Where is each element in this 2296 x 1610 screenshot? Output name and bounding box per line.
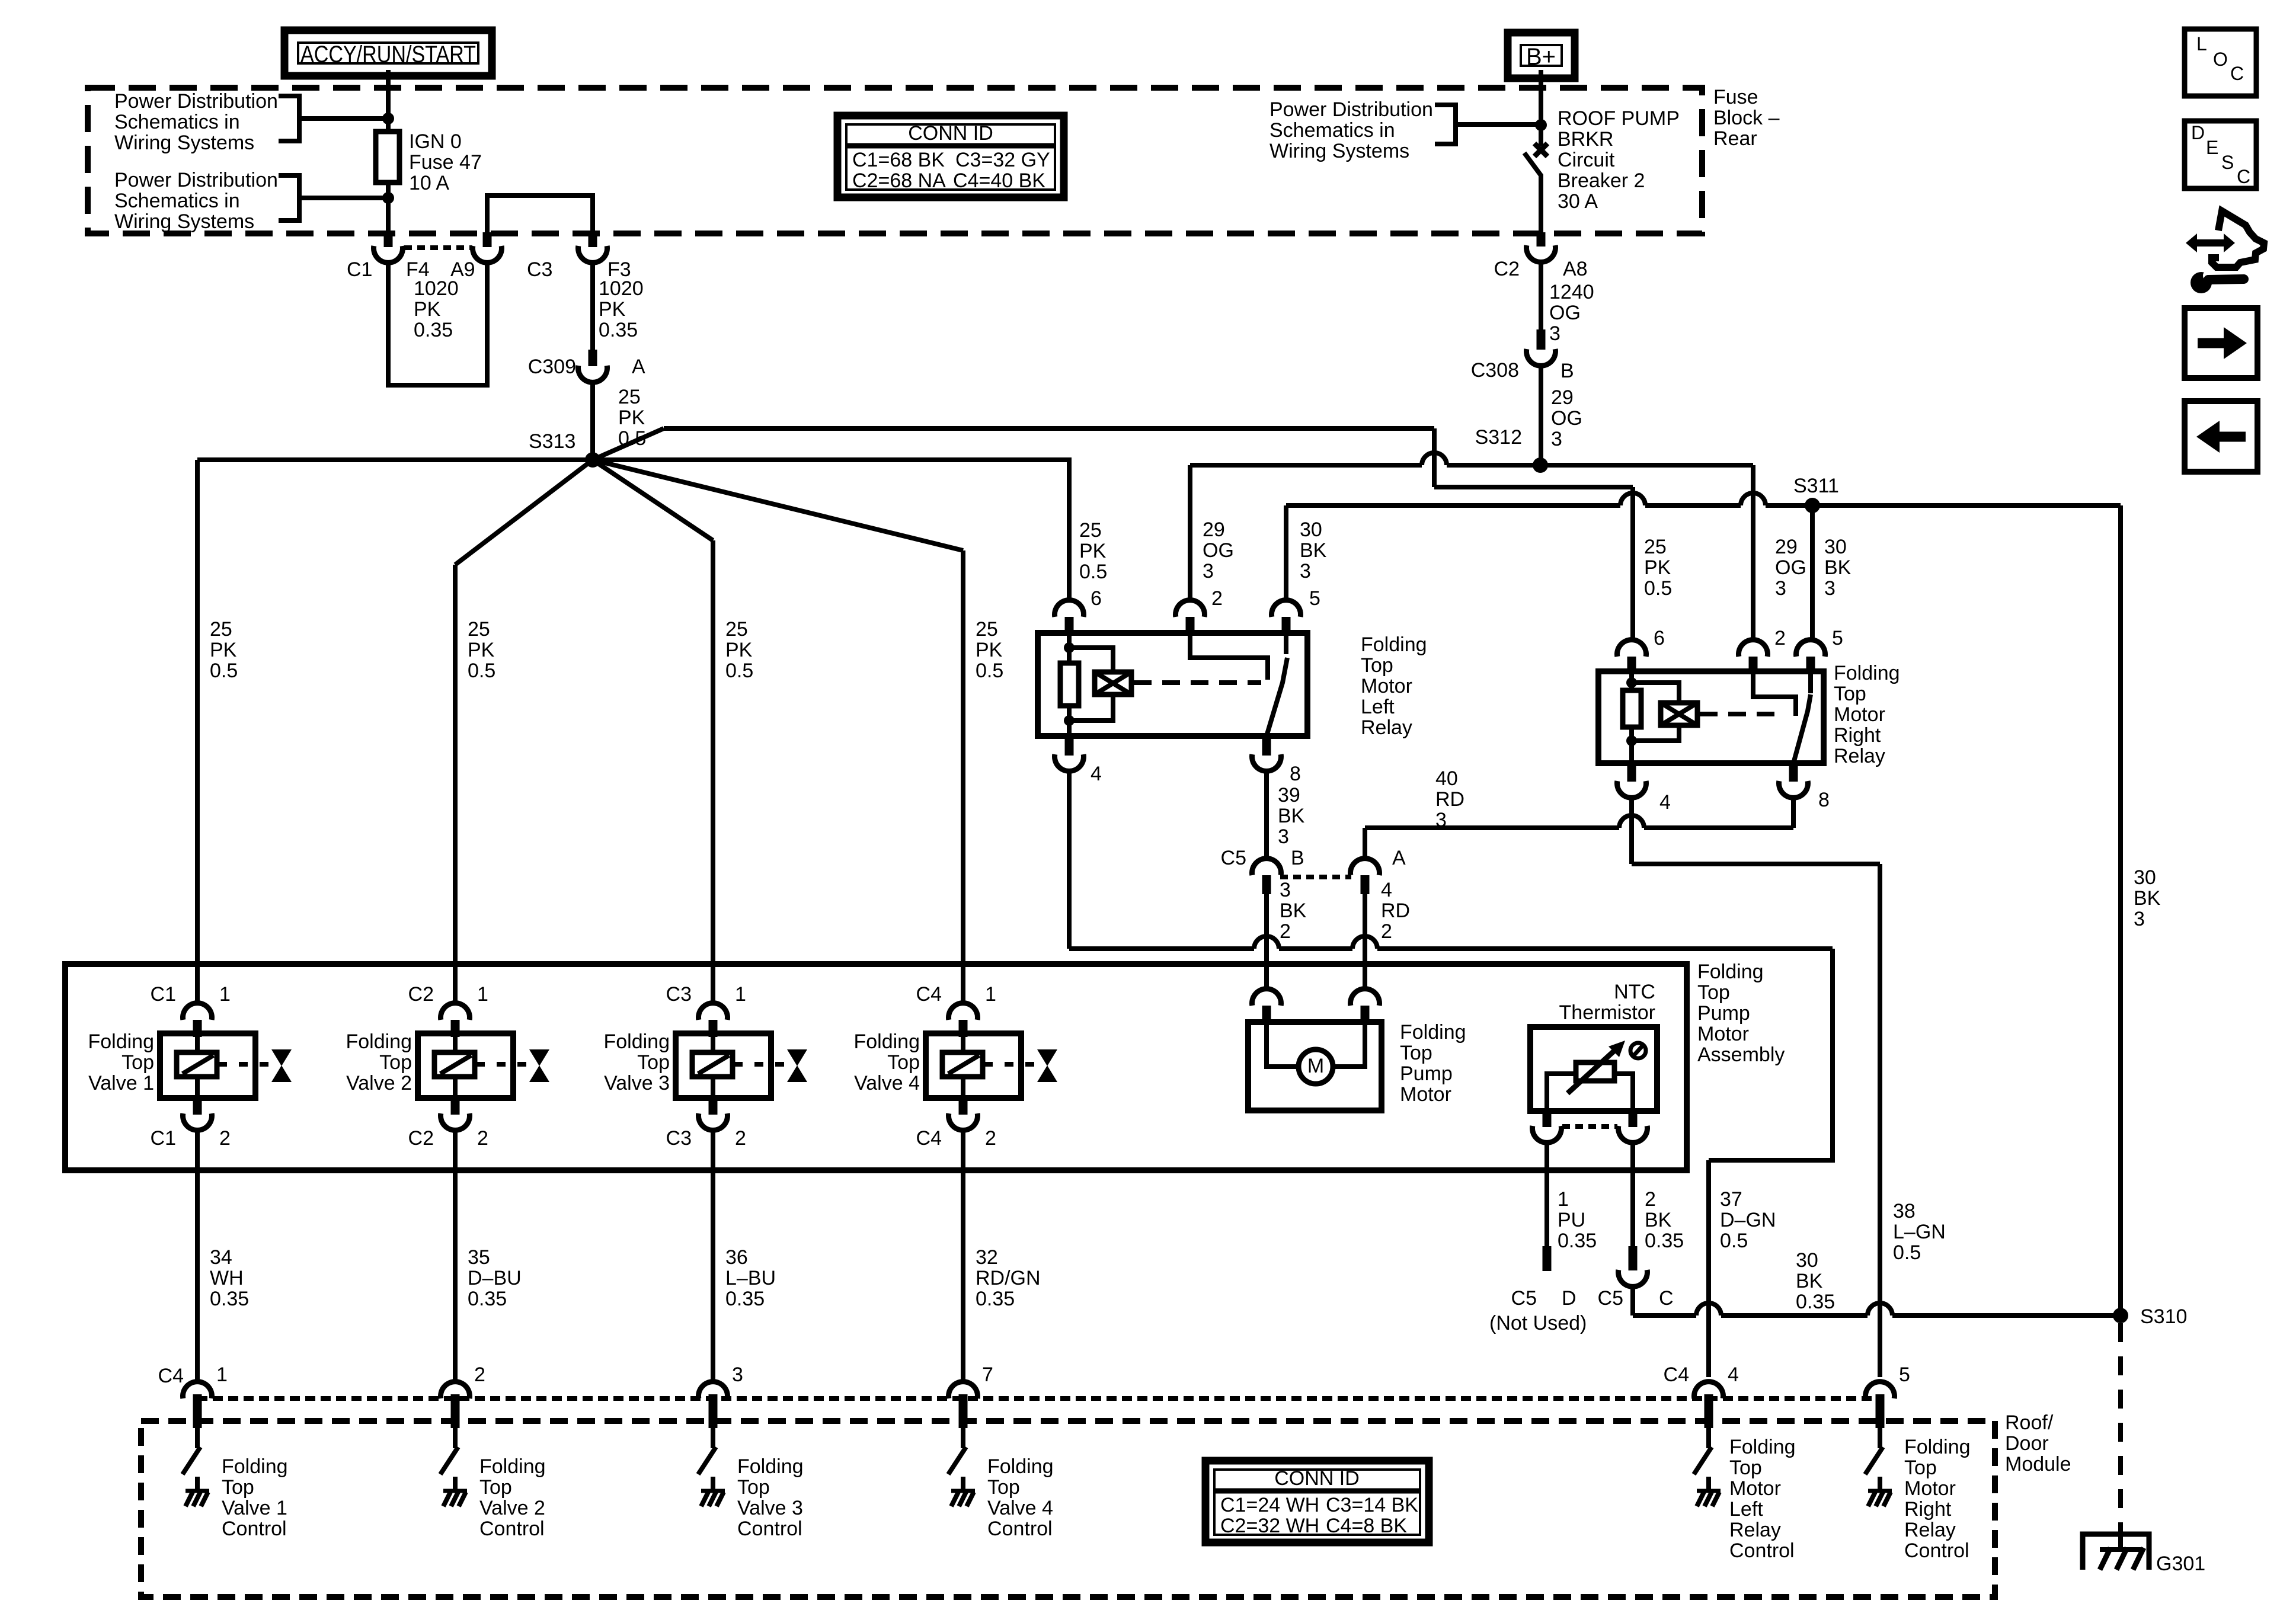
svg-text:A: A [1392, 847, 1406, 869]
svg-text:0.35: 0.35 [599, 319, 638, 341]
svg-text:ROOF PUMP: ROOF PUMP [1558, 107, 1680, 130]
bracket 1 [279, 96, 299, 141]
svg-text:Top: Top [479, 1476, 512, 1499]
icon box arrow right [2185, 308, 2257, 378]
svg-text:OG: OG [1549, 302, 1581, 324]
svg-text:O: O [2213, 49, 2228, 70]
wire 38 L-GN drop to C4 pin5 [1878, 864, 1882, 1377]
svg-text:Valve 1: Valve 1 [222, 1497, 287, 1519]
wire valve 1 to C4 pin (34 WH 0.35) [195, 1130, 200, 1379]
connector C309 stub [589, 350, 597, 366]
svg-text:OG: OG [1551, 407, 1582, 430]
bracket right [1435, 105, 1456, 144]
table CONN ID fuse block [837, 116, 1064, 197]
svg-text:Pump: Pump [1697, 1002, 1750, 1025]
svg-text:38: 38 [1893, 1200, 1916, 1222]
wire S313 diagonal to valve 3 [593, 460, 713, 540]
valve 2 symbol [529, 1049, 549, 1066]
wire bracket1 to IGN0 feed [299, 116, 388, 121]
svg-text:29: 29 [1775, 536, 1798, 558]
valve 2 actuator dashed [476, 1062, 530, 1067]
svg-text:3: 3 [1203, 560, 1214, 582]
left relay coil symbol [1095, 672, 1131, 694]
svg-text:Folding: Folding [1834, 662, 1900, 684]
connector C5 pin C [1618, 1270, 1647, 1286]
motor connector right [1351, 989, 1380, 1006]
wire 37 D-GN drop to C4 pin4 [1706, 1160, 1711, 1377]
svg-text:2: 2 [1774, 627, 1786, 649]
wire valve1 drop (25 PK 0.5) [195, 460, 200, 1006]
connector C4 pin 5 [1866, 1382, 1895, 1398]
valve 2 solenoid box [418, 1033, 513, 1098]
connector C5 pin A [1351, 859, 1380, 875]
svg-text:C309: C309 [528, 356, 576, 378]
svg-text:S311: S311 [1793, 475, 1839, 497]
svg-text:Circuit: Circuit [1558, 149, 1615, 171]
svg-text:S312: S312 [1475, 426, 1522, 449]
svg-text:OG: OG [1775, 556, 1806, 579]
svg-text:3: 3 [1824, 577, 1835, 600]
wire bracket2 to fuse output [299, 196, 388, 200]
svg-text:C4=40 BK: C4=40 BK [953, 169, 1045, 192]
connector dash C5 B-A [1280, 875, 1351, 879]
svg-text:3: 3 [1551, 428, 1562, 450]
svg-text:G301: G301 [2156, 1553, 2205, 1575]
thermistor connector right [1629, 1111, 1638, 1127]
wire valve 3 to C4 pin (36 L&#8211;BU 0.35) [711, 1130, 715, 1379]
right relay coil loop [1632, 683, 1679, 703]
valve 3 symbol [787, 1049, 807, 1066]
svg-text:25: 25 [725, 618, 748, 641]
svg-text:Top: Top [1697, 981, 1730, 1004]
svg-text:4: 4 [1091, 763, 1102, 785]
svg-text:0.35: 0.35 [414, 319, 453, 341]
left relay pin2 contact [1190, 633, 1268, 680]
svg-text:Left: Left [1361, 696, 1395, 718]
wire bracket to breaker feed [1456, 122, 1541, 127]
svg-text:CONN ID: CONN ID [1274, 1467, 1360, 1490]
svg-text:A9: A9 [450, 258, 475, 281]
svg-text:C3=14 BK: C3=14 BK [1326, 1494, 1418, 1516]
svg-text:Folding: Folding [479, 1455, 546, 1478]
module Roof/Door dashed box [141, 1421, 1995, 1597]
C4 pin 5 switch and ground [1878, 1428, 1882, 1448]
svg-text:30: 30 [1300, 518, 1322, 541]
svg-text:0.5: 0.5 [1644, 577, 1672, 600]
svg-text:3: 3 [1435, 809, 1447, 831]
ground G301 [2083, 1534, 2149, 1570]
right relay pin2 connector [1739, 640, 1768, 657]
svg-text:Wiring Systems: Wiring Systems [114, 132, 254, 154]
svg-text:C4: C4 [916, 1127, 942, 1150]
svg-text:0.35: 0.35 [1796, 1291, 1835, 1313]
svg-text:Wiring Systems: Wiring Systems [1269, 140, 1409, 162]
svg-text:Schematics in: Schematics in [1269, 119, 1395, 142]
svg-text:S: S [2221, 152, 2234, 173]
wire valve4 drop (25 PK 0.5) [961, 550, 965, 1006]
thermistor symbol [1576, 1062, 1614, 1081]
svg-text:3: 3 [1775, 577, 1786, 600]
svg-text:37: 37 [1720, 1188, 1742, 1211]
svg-text:Folding: Folding [1729, 1436, 1796, 1458]
svg-text:C3=32 GY: C3=32 GY [955, 149, 1050, 171]
connector A9 [473, 246, 502, 263]
svg-text:30: 30 [1796, 1249, 1818, 1272]
svg-text:Fuse 47: Fuse 47 [409, 151, 482, 174]
wire F3 down to C309 (1020 PK 0.35) [590, 263, 595, 351]
thermistor connector left [1543, 1111, 1552, 1127]
wire S313 diagonal up to right relay feed [593, 428, 664, 460]
svg-text:0.35: 0.35 [1645, 1230, 1684, 1252]
connector A9 stub [483, 232, 492, 247]
valve 1 actuator dashed [218, 1062, 272, 1067]
valve 1 bottom connector C1 pin 2 [193, 1098, 202, 1115]
left relay pin5 connector [1272, 600, 1301, 617]
label box B+ [1508, 33, 1575, 78]
svg-text:Relay: Relay [1361, 716, 1412, 739]
motor M circle [1299, 1049, 1333, 1084]
svg-text:4: 4 [1728, 1363, 1739, 1386]
svg-text:Power Distribution: Power Distribution [114, 90, 278, 113]
svg-text:2: 2 [474, 1363, 485, 1386]
svg-text:0.5: 0.5 [468, 660, 495, 682]
svg-text:RD: RD [1381, 900, 1410, 922]
svg-text:2: 2 [1211, 587, 1223, 610]
C4 pin 3 switch and ground [711, 1428, 715, 1448]
svg-text:10 A: 10 A [409, 172, 449, 194]
node junction on breaker feed [1535, 119, 1547, 131]
valve 2 top connector C2 pin 1 [441, 1003, 470, 1020]
wire 30 BK 3 right edge drop to S310 [2118, 505, 2123, 1315]
svg-text:RD: RD [1435, 788, 1464, 811]
thermistor leads [1547, 1074, 1576, 1112]
svg-text:Breaker 2: Breaker 2 [1558, 169, 1645, 192]
svg-text:Valve 1: Valve 1 [88, 1072, 154, 1094]
svg-text:C3: C3 [666, 983, 692, 1006]
svg-text:30: 30 [2134, 866, 2156, 889]
svg-text:Valve 4: Valve 4 [987, 1497, 1053, 1519]
svg-text:Top: Top [1361, 654, 1393, 677]
valve 3 solenoid box [676, 1033, 771, 1098]
svg-text:0.5: 0.5 [1079, 561, 1107, 583]
box Folding Top Pump Motor Assembly [65, 964, 1687, 1170]
svg-text:Control: Control [222, 1518, 287, 1540]
wire S310 to G301 dashed [2118, 1323, 2123, 1534]
right relay pin4 connector [1627, 763, 1636, 782]
svg-text:0.5: 0.5 [725, 660, 753, 682]
connector C5 pin B [1252, 859, 1281, 875]
fuse block rear dashed box [88, 88, 1702, 233]
connector C3 F3 stub [589, 232, 597, 247]
svg-text:C3: C3 [666, 1127, 692, 1150]
svg-text:Control: Control [737, 1518, 802, 1540]
svg-text:0.35: 0.35 [976, 1288, 1015, 1310]
connector dash thermistor pair [1562, 1124, 1617, 1129]
svg-text:Power Distribution: Power Distribution [114, 169, 278, 191]
wire C2 to C308 (1240 OG 3) [1539, 262, 1543, 331]
svg-text:Schematics in: Schematics in [114, 190, 240, 212]
svg-text:29: 29 [1203, 518, 1225, 541]
connector C4 pin 7 [949, 1382, 978, 1398]
svg-text:Module: Module [2005, 1453, 2071, 1475]
svg-text:Folding: Folding [88, 1030, 154, 1053]
svg-text:34: 34 [210, 1246, 232, 1269]
svg-text:Folding: Folding [603, 1030, 670, 1053]
svg-text:PK: PK [210, 639, 237, 661]
svg-text:C2: C2 [408, 983, 434, 1006]
svg-text:7: 7 [982, 1363, 993, 1386]
valve 4 actuator dashed [984, 1062, 1038, 1067]
wire right relay pin4 control run (38 L-GN) [1629, 798, 1634, 864]
svg-text:C4=8 BK: C4=8 BK [1326, 1515, 1407, 1537]
svg-text:1240: 1240 [1549, 281, 1594, 303]
svg-text:3: 3 [2134, 908, 2145, 930]
valve 2 solenoid coil [453, 1037, 458, 1052]
svg-text:Top: Top [637, 1051, 670, 1074]
svg-text:C2: C2 [1494, 258, 1520, 280]
valve 3 solenoid coil [711, 1037, 715, 1052]
svg-text:0.35: 0.35 [468, 1288, 507, 1310]
svg-text:Control: Control [479, 1518, 545, 1540]
svg-text:B: B [1560, 360, 1574, 382]
valve 4 solenoid box [926, 1033, 1021, 1098]
svg-text:C1: C1 [151, 1127, 176, 1150]
svg-text:Top: Top [1834, 683, 1866, 705]
motor box Folding Top Pump Motor [1248, 1022, 1382, 1110]
svg-text:Left: Left [1729, 1498, 1763, 1521]
right relay pin5 internal [1808, 671, 1813, 693]
wire C5 A down to pump motor (4 RD 2) [1363, 894, 1367, 991]
svg-text:C3: C3 [527, 258, 552, 281]
connector C308 stub [1537, 329, 1546, 350]
svg-text:BK: BK [1278, 805, 1305, 827]
svg-text:8: 8 [1818, 789, 1830, 811]
svg-text:30: 30 [1824, 536, 1847, 558]
svg-text:C1=68 BK: C1=68 BK [852, 149, 945, 171]
svg-text:2: 2 [735, 1127, 746, 1150]
left relay pin6 connector [1055, 600, 1084, 617]
svg-text:D–BU: D–BU [468, 1267, 522, 1289]
wire valve 2 to C4 pin (35 D&#8211;BU 0.35) [453, 1130, 458, 1379]
wire valve3 drop (25 PK 0.5) [711, 540, 715, 1006]
svg-text:5: 5 [1832, 627, 1843, 649]
svg-text:2: 2 [477, 1127, 488, 1150]
wire 25 PK to right relay pin6 upper run [664, 426, 1434, 431]
wire thermistor pin2 (2 BK 0.35) [1630, 1142, 1635, 1247]
svg-text:OG: OG [1203, 539, 1234, 562]
svg-text:Top: Top [222, 1476, 254, 1499]
svg-text:PU: PU [1558, 1209, 1585, 1231]
svg-text:36: 36 [725, 1246, 748, 1269]
svg-text:Wiring Systems: Wiring Systems [114, 210, 254, 233]
splice S312 node [1533, 457, 1548, 473]
wire S313 left to valve 1 drop [197, 457, 593, 462]
wire 25 PK drop to right relay pin6 [1630, 487, 1635, 640]
svg-text:0.35: 0.35 [725, 1288, 765, 1310]
fuse IGN 0 Fuse 47 10A [376, 132, 399, 183]
svg-text:(Not Used): (Not Used) [1489, 1312, 1587, 1334]
svg-text:Folding: Folding [1400, 1021, 1466, 1044]
svg-text:25: 25 [1644, 536, 1667, 558]
svg-text:2: 2 [219, 1127, 231, 1150]
svg-text:Relay: Relay [1834, 745, 1885, 767]
left relay pin8 connector [1262, 736, 1271, 756]
wire S311 drop to right relay pin5 (30 BK 3) [1810, 505, 1815, 640]
left relay pin5 internal [1284, 633, 1288, 654]
svg-text:Top: Top [1729, 1457, 1762, 1479]
valve 4 bottom connector C4 pin 2 [959, 1098, 968, 1115]
wire valve2 drop (25 PK 0.5) [453, 565, 458, 1006]
svg-text:3: 3 [1280, 879, 1291, 901]
svg-text:WH: WH [210, 1267, 244, 1289]
svg-text:35: 35 [468, 1246, 490, 1269]
wire C5 B down to pump motor (3 BK 2) [1264, 894, 1269, 991]
right relay switch blade [1793, 694, 1811, 763]
svg-text:Relay: Relay [1729, 1519, 1781, 1541]
svg-text:BK: BK [1280, 900, 1307, 922]
svg-text:M: M [1307, 1055, 1324, 1077]
motor connector left [1252, 989, 1281, 1006]
svg-text:25: 25 [468, 618, 490, 641]
svg-text:B+: B+ [1526, 44, 1556, 70]
svg-text:Motor: Motor [1834, 703, 1885, 726]
svg-text:Motor: Motor [1361, 675, 1412, 697]
svg-text:PK: PK [414, 298, 441, 321]
svg-text:Valve 3: Valve 3 [604, 1072, 670, 1094]
connector C4 pin 1 [183, 1382, 212, 1398]
svg-text:39: 39 [1278, 784, 1300, 806]
connector dash C1-A9 [404, 245, 472, 250]
svg-text:0.5: 0.5 [210, 660, 238, 682]
svg-text:Folding: Folding [346, 1030, 412, 1053]
right relay pin2 contact [1753, 671, 1796, 716]
svg-text:0.35: 0.35 [1558, 1230, 1597, 1252]
splice S310 [2113, 1308, 2128, 1323]
connector C4 pin 2 [441, 1382, 470, 1398]
svg-text:1: 1 [219, 983, 231, 1006]
svg-text:C2=32 WH: C2=32 WH [1220, 1515, 1319, 1537]
wire C5 C to S310 (30 BK 0.35) [1630, 1286, 1635, 1315]
svg-text:BK: BK [1645, 1209, 1672, 1231]
wire C5 A up and right to right relay pin8 (40 RD 3) [1363, 828, 1367, 859]
svg-text:1: 1 [985, 983, 996, 1006]
svg-text:32: 32 [976, 1246, 998, 1269]
wire C308 to S312 (29 OG 3) [1539, 366, 1543, 466]
circuit breaker 2 blade [1524, 153, 1541, 235]
wire ACCY feed down to fuse [386, 70, 391, 132]
C4 pin 1 switch and ground [195, 1428, 200, 1448]
C4 pin 7 switch and ground [961, 1428, 965, 1448]
svg-text:Valve 3: Valve 3 [737, 1497, 803, 1519]
svg-text:CONN ID: CONN ID [908, 122, 993, 145]
svg-text:Fuse: Fuse [1713, 86, 1758, 108]
valve 4 top connector C4 pin 1 [949, 1003, 978, 1020]
connector C4 pin 3 [699, 1382, 728, 1398]
wire fuse to C1 cavity F4 [386, 183, 391, 235]
svg-text:2: 2 [1381, 920, 1392, 943]
svg-text:C1: C1 [347, 258, 372, 281]
valve 3 top connector C3 pin 1 [699, 1003, 728, 1020]
circuit breaker 2 contact x [1534, 143, 1547, 156]
right relay pin5 connector [1796, 640, 1825, 657]
svg-text:Folding: Folding [737, 1455, 804, 1478]
bracket 2 [279, 175, 299, 220]
left relay actuator dashed [1134, 680, 1261, 685]
svg-text:Folding: Folding [853, 1030, 920, 1053]
svg-text:Pump: Pump [1400, 1062, 1453, 1085]
svg-text:PK: PK [725, 639, 753, 661]
connector C1 cavity F4 [374, 246, 403, 263]
svg-text:Motor: Motor [1400, 1083, 1451, 1106]
svg-text:Right: Right [1904, 1498, 1952, 1521]
svg-text:BK: BK [1796, 1270, 1823, 1292]
valve 1 solenoid coil [195, 1037, 200, 1052]
svg-text:3: 3 [1300, 560, 1311, 582]
svg-text:PK: PK [599, 298, 626, 321]
splice S313 [585, 452, 600, 468]
svg-text:Valve 2: Valve 2 [346, 1072, 412, 1094]
svg-text:C: C [2237, 166, 2250, 187]
svg-text:1: 1 [1558, 1188, 1569, 1211]
wire 30 BK bus left relay pin5 to S311 to right edge [1284, 505, 1288, 600]
wire valve 4 to C4 pin (32 RD/GN 0.35) [961, 1130, 965, 1379]
svg-text:Top: Top [887, 1051, 920, 1074]
connector row C4 dashed line [197, 1396, 1881, 1401]
svg-text:Valve 4: Valve 4 [854, 1072, 920, 1094]
svg-text:C1=24 WH: C1=24 WH [1220, 1494, 1319, 1516]
valve 3 actuator dashed [734, 1062, 788, 1067]
connector C2 stub [1537, 232, 1546, 247]
svg-text:C1: C1 [151, 983, 176, 1006]
svg-text:Block –: Block – [1713, 107, 1780, 129]
svg-text:PK: PK [468, 639, 495, 661]
svg-text:Top: Top [121, 1051, 154, 1074]
svg-text:Motor: Motor [1904, 1477, 1956, 1500]
svg-text:C5: C5 [1221, 847, 1246, 869]
svg-text:1: 1 [735, 983, 746, 1006]
svg-text:C5: C5 [1511, 1287, 1537, 1310]
connector C1 F4 stub [384, 232, 393, 247]
svg-text:3: 3 [1549, 322, 1560, 345]
svg-text:PK: PK [618, 406, 645, 429]
icon box DESC [2185, 121, 2256, 188]
label box ACCY/RUN/START [284, 30, 492, 76]
svg-text:BK: BK [1824, 556, 1851, 579]
svg-text:L: L [2196, 33, 2207, 55]
svg-text:Control: Control [1729, 1539, 1795, 1562]
connector C3 cavity F3 [578, 246, 607, 263]
svg-text:C: C [2230, 63, 2244, 84]
wire C309 to S313 (25 PK 0.5) [590, 382, 595, 460]
thermistor no-connection circle [1630, 1043, 1646, 1058]
svg-text:C4: C4 [916, 983, 942, 1006]
svg-text:5: 5 [1899, 1363, 1910, 1386]
icon box arrow left [2185, 401, 2257, 472]
svg-text:C4: C4 [158, 1365, 184, 1387]
left relay coil loop [1069, 648, 1113, 672]
motor internal wires [1267, 1025, 1299, 1067]
svg-text:BK: BK [1300, 539, 1327, 562]
svg-text:1020: 1020 [599, 277, 644, 300]
svg-text:Power Distribution: Power Distribution [1269, 98, 1433, 121]
connector C4 pin 4 [1694, 1382, 1723, 1398]
left relay pin2 connector [1176, 600, 1205, 617]
svg-text:Assembly: Assembly [1697, 1044, 1785, 1066]
svg-text:BRKR: BRKR [1558, 128, 1613, 151]
svg-text:Folding: Folding [1361, 633, 1427, 656]
wire thermistor pin1 (1 PU 0.35) not used [1544, 1142, 1549, 1247]
svg-text:C2: C2 [408, 1127, 434, 1150]
